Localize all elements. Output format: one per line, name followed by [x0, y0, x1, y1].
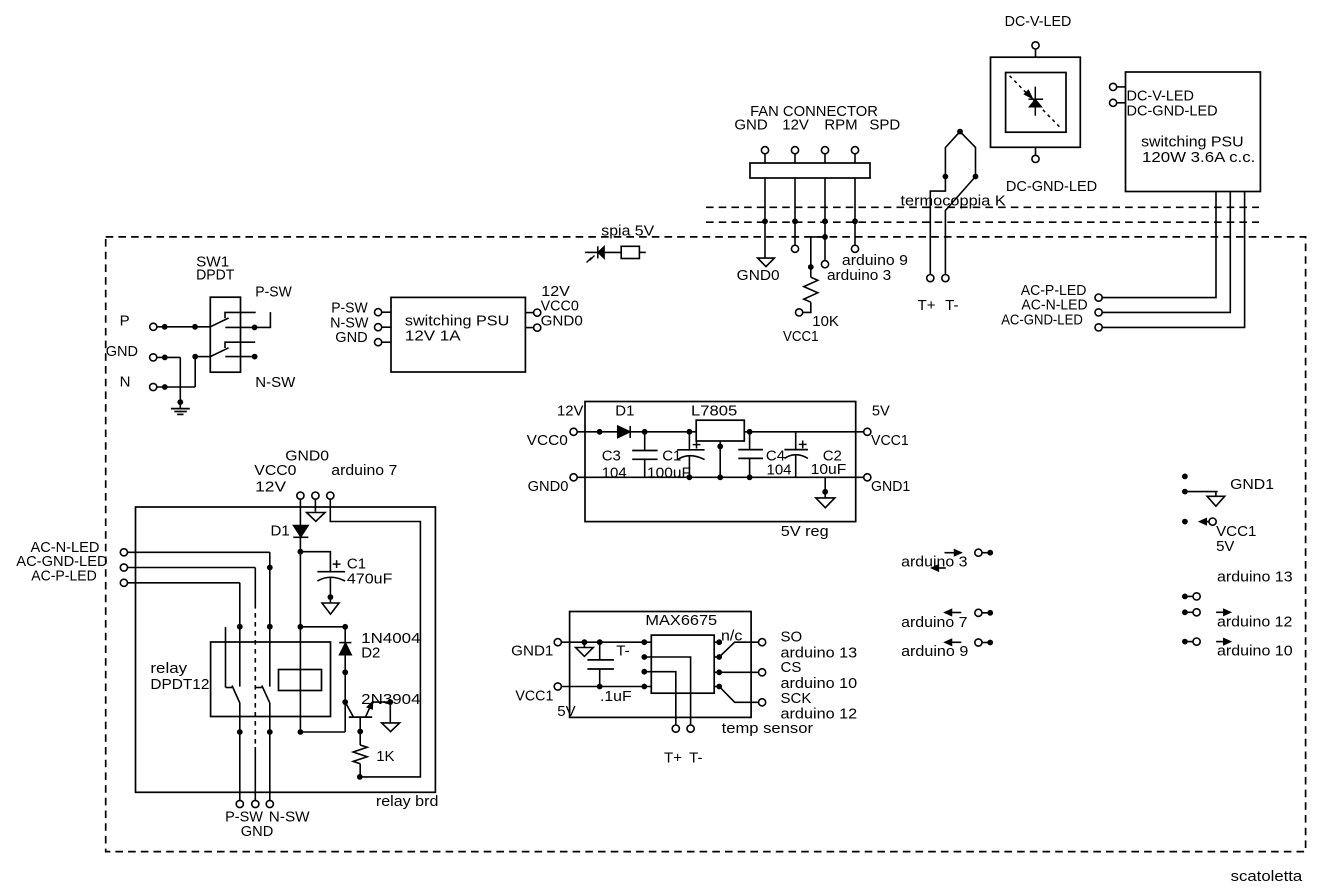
svg-text:5V reg: 5V reg	[781, 523, 829, 540]
svg-text:DC-GND-LED: DC-GND-LED	[1006, 178, 1097, 195]
svg-text:VCC1: VCC1	[871, 432, 909, 449]
svg-text:VCC0: VCC0	[254, 462, 296, 479]
svg-text:D1: D1	[271, 523, 290, 540]
svg-text:104: 104	[767, 461, 792, 478]
svg-text:arduino 7: arduino 7	[331, 462, 397, 479]
svg-text:GND: GND	[734, 117, 768, 134]
svg-text:spia 5V: spia 5V	[601, 223, 654, 240]
svg-text:5V: 5V	[872, 403, 890, 420]
svg-text:arduino 7: arduino 7	[901, 614, 967, 631]
svg-text:GND: GND	[241, 823, 274, 840]
svg-text:VCC0: VCC0	[527, 432, 568, 449]
svg-text:GND: GND	[106, 343, 138, 360]
svg-text:104: 104	[602, 464, 627, 481]
svg-text:DC-V-LED: DC-V-LED	[1005, 13, 1072, 30]
svg-text:N: N	[120, 374, 131, 391]
svg-text:switching PSU: switching PSU	[1141, 133, 1244, 150]
svg-text:120W 3.6A c.c.: 120W 3.6A c.c.	[1142, 149, 1255, 166]
svg-text:GND1: GND1	[1230, 476, 1274, 493]
svg-text:P: P	[120, 313, 130, 330]
svg-text:DPDT12: DPDT12	[150, 676, 209, 693]
svg-text:1K: 1K	[376, 748, 394, 765]
svg-text:MAX6675: MAX6675	[645, 612, 717, 629]
svg-text:VCC1: VCC1	[783, 328, 819, 345]
svg-text:AC-P-LED: AC-P-LED	[31, 568, 97, 585]
svg-text:SPD: SPD	[869, 117, 900, 134]
svg-text:GND1: GND1	[871, 478, 910, 495]
svg-text:SO: SO	[781, 628, 803, 645]
svg-text:L7805: L7805	[691, 403, 737, 420]
svg-text:DC-GND-LED: DC-GND-LED	[1127, 102, 1218, 119]
svg-text:scatoletta: scatoletta	[1231, 868, 1303, 885]
svg-text:arduino 9: arduino 9	[901, 643, 968, 660]
svg-text:AC-GND-LED: AC-GND-LED	[1001, 312, 1083, 329]
svg-text:470uF: 470uF	[347, 571, 393, 588]
svg-text:GND0: GND0	[737, 267, 780, 284]
svg-text:T+: T+	[664, 749, 682, 766]
svg-text:D2: D2	[361, 645, 380, 662]
svg-text:D1: D1	[615, 403, 634, 420]
svg-text:T-: T-	[689, 749, 702, 766]
svg-text:N-SW: N-SW	[269, 809, 311, 826]
svg-text:arduino 12: arduino 12	[1217, 614, 1292, 631]
svg-text:12V 1A: 12V 1A	[405, 327, 461, 344]
svg-text:arduino 13: arduino 13	[1217, 568, 1293, 585]
svg-text:C3: C3	[602, 447, 621, 464]
svg-text:VCC1: VCC1	[515, 687, 553, 704]
svg-text:.1uF: .1uF	[600, 688, 632, 705]
svg-text:2N3904: 2N3904	[361, 691, 420, 708]
svg-text:DPDT: DPDT	[196, 267, 234, 284]
svg-text:5V: 5V	[557, 703, 575, 720]
svg-text:5V: 5V	[1216, 538, 1234, 555]
svg-text:T+: T+	[918, 297, 936, 314]
svg-text:SCK: SCK	[781, 690, 812, 707]
svg-text:10uF: 10uF	[811, 461, 847, 478]
svg-text:T-: T-	[616, 643, 629, 660]
svg-text:relay brd: relay brd	[376, 793, 439, 810]
svg-text:C1: C1	[662, 447, 681, 464]
svg-text:GND0: GND0	[541, 313, 583, 330]
svg-text:relay: relay	[150, 660, 187, 677]
svg-text:12V: 12V	[557, 403, 584, 420]
svg-text:CS: CS	[781, 659, 802, 676]
svg-text:N-SW: N-SW	[255, 374, 296, 391]
svg-text:GND1: GND1	[511, 642, 553, 659]
svg-text:GND0: GND0	[528, 478, 569, 495]
svg-text:RPM: RPM	[824, 117, 857, 134]
svg-text:arduino 10: arduino 10	[1217, 643, 1293, 660]
svg-text:FAN CONNECTOR: FAN CONNECTOR	[750, 103, 878, 120]
svg-text:temp sensor: temp sensor	[722, 720, 813, 737]
svg-text:12V: 12V	[782, 117, 809, 134]
svg-text:100uF: 100uF	[647, 464, 691, 481]
svg-text:P-SW: P-SW	[255, 284, 292, 301]
svg-text:arduino 3: arduino 3	[827, 267, 891, 284]
svg-text:GND: GND	[335, 329, 368, 346]
svg-text:T-: T-	[945, 297, 958, 314]
svg-text:12V: 12V	[255, 478, 286, 495]
